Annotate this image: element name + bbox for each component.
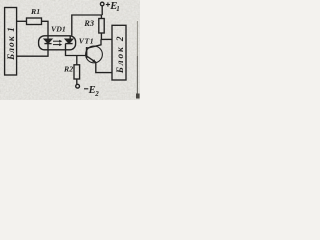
wire photodiode top to +E1 rail xyxy=(72,15,102,36)
transistor VT1 xyxy=(86,46,103,63)
block 1 box xyxy=(5,8,17,76)
resistor R2 xyxy=(74,56,80,85)
resistor R3 xyxy=(99,15,104,39)
photodiode inside optocoupler xyxy=(65,36,72,50)
stray page line xyxy=(136,21,138,56)
optocoupler VD1 package xyxy=(39,36,76,50)
wire block1 to R1 xyxy=(17,20,27,22)
terminal -E2 xyxy=(76,84,80,88)
light arrows xyxy=(53,40,62,46)
paper grain xyxy=(0,0,140,100)
LED inside optocoupler xyxy=(44,36,51,50)
wire R1 to LED anode xyxy=(42,21,49,36)
resistor R1 xyxy=(27,18,42,25)
terminal +E1 xyxy=(100,2,104,15)
collector wire xyxy=(87,39,101,48)
wire LED cathode to block1 xyxy=(17,50,48,56)
block 2 box xyxy=(112,25,126,80)
wire emitter to block2 xyxy=(96,62,112,72)
collector node wire to block2 xyxy=(101,38,112,40)
label -E2 xyxy=(84,88,88,90)
label +E1 xyxy=(106,2,110,6)
wire base xyxy=(66,50,87,56)
